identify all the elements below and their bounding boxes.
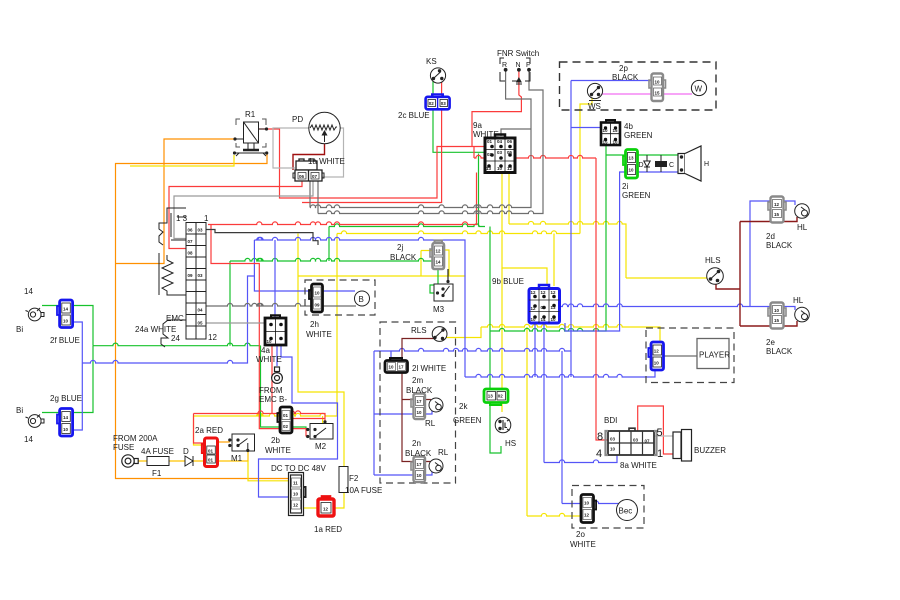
- svg-text:10: 10: [610, 447, 616, 452]
- svg-text:GREEN: GREEN: [622, 191, 651, 200]
- svg-text:2f BLUE: 2f BLUE: [50, 336, 80, 345]
- wire red R1 to 9a feeder: [259, 129, 486, 198]
- connector 2h WHITE + dashed box: [305, 280, 375, 315]
- svg-text:10: 10: [603, 128, 609, 133]
- svg-text:D: D: [183, 447, 189, 456]
- wire gray EMC 07 to 1a 07: [174, 181, 313, 239]
- svg-text:11: 11: [293, 481, 298, 486]
- motor W: [691, 80, 706, 95]
- wire blue riser to 2d: [750, 201, 795, 307]
- svg-text:4b: 4b: [624, 122, 633, 131]
- wire yellow 2a to M1 riser: [217, 452, 248, 462]
- wire gray 9a top tab riser: [501, 129, 531, 136]
- svg-text:WHITE: WHITE: [570, 540, 596, 549]
- dashed box 2o WHITE: [572, 486, 644, 529]
- wire yellow WS net: WS down, long run left, down to M2 area, to 2a: [580, 98, 592, 234]
- connector 9a WHITE: [485, 135, 515, 173]
- svg-text:1 3: 1 3: [176, 214, 188, 223]
- FNR switch pins and brackets: [500, 58, 531, 84]
- wire red 2b to M2: [292, 418, 325, 420]
- wire blue 2l row: [374, 348, 571, 351]
- svg-text:04: 04: [541, 305, 547, 310]
- wire magenta 2p WS to W: [602, 93, 692, 95]
- svg-text:04: 04: [497, 139, 503, 144]
- svg-text:Bi: Bi: [16, 406, 23, 415]
- svg-text:RL: RL: [438, 448, 449, 457]
- connector 2m BLACK: [411, 394, 425, 420]
- svg-text:HLS: HLS: [705, 256, 721, 265]
- svg-text:2b: 2b: [271, 436, 280, 445]
- svg-text:9b BLUE: 9b BLUE: [492, 277, 524, 286]
- svg-text:2m: 2m: [412, 376, 423, 385]
- wire blue RL2 bottom: [374, 472, 432, 475]
- connector 2o: [581, 495, 596, 523]
- wire green 2i to horn: [638, 154, 681, 156]
- wire darkred RLS internal trunk: [402, 339, 434, 462]
- svg-text:12: 12: [436, 249, 442, 254]
- svg-text:GREEN: GREEN: [624, 131, 653, 140]
- relay R1: [233, 119, 268, 156]
- svg-text:02: 02: [283, 424, 289, 429]
- svg-text:2i: 2i: [622, 182, 628, 191]
- svg-text:07: 07: [645, 439, 651, 444]
- svg-text:12: 12: [507, 166, 513, 171]
- svg-text:12: 12: [531, 306, 537, 311]
- wire gray BDI to buzzer: [648, 435, 673, 437]
- wire gray EMC 05 to 4a: [206, 318, 271, 323]
- svg-text:08: 08: [188, 251, 194, 256]
- svg-text:BDI: BDI: [604, 416, 617, 425]
- wire red KS down and left: [302, 82, 442, 203]
- svg-text:03: 03: [610, 437, 616, 442]
- svg-text:14: 14: [541, 317, 547, 322]
- svg-text:W: W: [695, 85, 703, 94]
- wire yellow horizontal under 2j: [298, 275, 466, 277]
- svg-text:10: 10: [551, 317, 557, 322]
- svg-text:B: B: [359, 295, 364, 304]
- svg-text:04: 04: [198, 308, 204, 313]
- wire blue 4a to ring terminal: [276, 345, 278, 366]
- svg-text:12: 12: [531, 290, 537, 295]
- svg-text:10: 10: [417, 410, 423, 415]
- wire red 4a down to M2 top pin: [271, 345, 273, 414]
- wire gray EMC 03 to 9b: [206, 230, 318, 246]
- svg-text:13: 13: [551, 305, 557, 310]
- svg-text:09: 09: [188, 273, 194, 278]
- wire gray PD right side to 1a: [322, 128, 344, 177]
- wire red BDI loop to buzzer: [638, 406, 673, 454]
- svg-text:EMC: EMC: [166, 314, 184, 323]
- svg-text:R: R: [502, 62, 507, 69]
- svg-text:BLACK: BLACK: [766, 347, 793, 356]
- wire blue riser drop to 2o and Bec: [561, 351, 563, 504]
- svg-text:13: 13: [486, 166, 492, 171]
- wire green 4b to 2i: [606, 154, 626, 156]
- wire blue into 4b: [571, 127, 601, 129]
- connector 2i GREEN: [623, 150, 638, 179]
- svg-text:2d: 2d: [766, 232, 775, 241]
- fuse 2e: [768, 303, 786, 329]
- svg-text:09: 09: [315, 303, 321, 308]
- wire green branch up to 9a feeder: [328, 227, 330, 262]
- svg-text:15: 15: [613, 128, 619, 133]
- svg-text:10: 10: [267, 339, 273, 344]
- svg-text:9a: 9a: [473, 121, 482, 130]
- dashed box PLAYER: [646, 328, 734, 383]
- connector 4a WHITE: [265, 315, 286, 345]
- wire yellow 9a drop through 2k: [501, 268, 503, 412]
- wire yellow R1 mount stub: [130, 155, 234, 166]
- svg-text:1a WHITE: 1a WHITE: [308, 157, 345, 166]
- wire green Bi1 to 2f: [42, 305, 60, 307]
- wire red EMC down to M2 lower pin: [211, 225, 306, 437]
- wire yellow branch into 9b top: [553, 234, 555, 287]
- svg-text:EMC B-: EMC B-: [259, 395, 287, 404]
- wire gray 1a to FNR F: [317, 181, 319, 214]
- svg-text:FROM: FROM: [259, 386, 283, 395]
- EMC connector strip: [186, 223, 206, 340]
- svg-text:2c BLUE: 2c BLUE: [398, 111, 430, 120]
- svg-text:F: F: [526, 62, 530, 69]
- wire main feed ring to F1 to D to 2a: [138, 460, 205, 462]
- wire red row to M2 top pin: [194, 411, 326, 422]
- wire gray EMC 04 to B circle: [206, 303, 356, 306]
- svg-text:WHITE: WHITE: [256, 355, 282, 364]
- svg-text:KS: KS: [426, 57, 437, 66]
- key switch KS: [430, 68, 445, 83]
- svg-text:10: 10: [613, 140, 619, 145]
- svg-text:03: 03: [198, 228, 204, 233]
- svg-text:D: D: [639, 162, 644, 169]
- wire blue 9b drop to BDI row: [543, 323, 545, 463]
- svg-text:PLAYER: PLAYER: [699, 351, 730, 360]
- wire blue 9b to headlights feeder: [559, 304, 795, 310]
- wire yellow 9a pin to 9b top: [502, 173, 547, 287]
- switch M2: [306, 420, 333, 439]
- svg-text:10: 10: [63, 319, 69, 324]
- svg-text:DC TO DC 48V: DC TO DC 48V: [271, 464, 326, 473]
- wire red EMC 08 loop to 1a connector: [169, 181, 302, 249]
- wire blue 2f trunk: [72, 322, 82, 430]
- svg-text:17: 17: [417, 462, 423, 467]
- svg-text:4: 4: [596, 448, 602, 460]
- svg-text:5: 5: [657, 427, 663, 439]
- fuse F1 4A: [147, 457, 169, 466]
- wire blue 2l cell drop: [390, 351, 392, 361]
- EMC solenoid bracket: [159, 208, 186, 347]
- svg-text:M1: M1: [231, 454, 243, 463]
- wire red FNR N drop: [472, 70, 521, 147]
- wire black 2j to M3 pin: [447, 269, 449, 282]
- svg-text:10: 10: [584, 501, 590, 506]
- connector 1a WHITE: [293, 159, 324, 181]
- svg-text:PD: PD: [292, 115, 303, 124]
- svg-text:HS: HS: [505, 439, 516, 448]
- svg-text:01: 01: [208, 457, 214, 462]
- controller Bec: [617, 500, 638, 521]
- svg-text:10: 10: [531, 317, 537, 322]
- ring terminal FROM FUSE: [122, 455, 138, 467]
- box PLAYER: [697, 339, 729, 369]
- svg-text:GREEN: GREEN: [453, 416, 482, 425]
- svg-text:FROM 200A: FROM 200A: [113, 434, 158, 443]
- wire orange 2a to M1 pins: [217, 441, 230, 443]
- headlight HL top: [795, 204, 810, 219]
- dashed box RLS: [380, 322, 456, 483]
- wire yellow M1 to DC-DC pin 11: [248, 461, 290, 481]
- svg-text:4a: 4a: [261, 346, 270, 355]
- wire yellow 2h-side trunk down to F2 and 1a RED: [298, 234, 344, 468]
- battery indicator Bi top: [26, 308, 45, 321]
- svg-text:BLACK: BLACK: [390, 253, 417, 262]
- horn speaker H: [678, 146, 701, 181]
- headlight switch HLS: [707, 268, 724, 285]
- svg-text:02: 02: [487, 152, 493, 157]
- svg-text:8a WHITE: 8a WHITE: [620, 461, 657, 470]
- diode D (main feed): [185, 456, 193, 466]
- switch M3: [434, 280, 453, 301]
- wire green Bi2 to 2g: [42, 412, 60, 414]
- svg-text:03: 03: [441, 101, 447, 106]
- svg-text:2n: 2n: [412, 439, 421, 448]
- svg-text:WHITE: WHITE: [306, 330, 332, 339]
- wire blue RLS trunk: [373, 351, 375, 475]
- wire darkred PD wiper to 1a connector: [293, 131, 325, 170]
- connector 2b WHITE: [277, 407, 292, 433]
- connector 2n BLACK: [411, 457, 425, 483]
- wire yellow 2j right exit: [444, 250, 450, 276]
- svg-text:10: 10: [389, 365, 395, 370]
- svg-text:07: 07: [312, 174, 318, 179]
- wire green horizontal to EMC riser: [93, 343, 261, 346]
- wire blue 4a up to bundle and across to RLS riser: [274, 240, 276, 318]
- svg-text:06: 06: [299, 174, 305, 179]
- svg-text:10: 10: [315, 291, 321, 296]
- svg-text:10: 10: [63, 427, 69, 432]
- svg-text:Bec: Bec: [619, 507, 633, 516]
- wire red EMC pin1 to 9a bottom: [208, 173, 477, 225]
- connector 2l WHITE: [385, 358, 408, 373]
- svg-text:07: 07: [188, 239, 194, 244]
- svg-text:13: 13: [488, 394, 494, 399]
- svg-text:02: 02: [429, 101, 435, 106]
- svg-text:1: 1: [204, 214, 209, 223]
- wire green 2g to junction riser: [72, 346, 93, 413]
- svg-text:FNR Switch: FNR Switch: [497, 49, 539, 58]
- svg-text:2k: 2k: [459, 402, 468, 411]
- buzzer: [673, 430, 692, 462]
- svg-text:FUSE: FUSE: [113, 443, 134, 452]
- svg-text:13: 13: [629, 156, 635, 161]
- connector 2j: [430, 241, 444, 270]
- svg-text:2o: 2o: [576, 530, 585, 539]
- wire yellow M2 drop: [322, 416, 324, 433]
- wire blue 4a down to DC-DC pin 10: [259, 345, 338, 497]
- connector 9b BLUE: [529, 285, 560, 323]
- wire blue player bottom row: [465, 370, 655, 377]
- ring terminal FROM EMC B-: [272, 367, 283, 383]
- svg-text:14: 14: [24, 435, 33, 444]
- svg-text:14: 14: [63, 307, 69, 312]
- svg-text:10: 10: [629, 168, 635, 173]
- wire green to M2 branch: [261, 346, 307, 430]
- svg-text:10: 10: [655, 80, 661, 85]
- connector 2g BLUE: [57, 409, 73, 437]
- svg-text:Bi: Bi: [16, 325, 23, 334]
- svg-text:2a RED: 2a RED: [195, 426, 223, 435]
- fuse 2d: [768, 197, 786, 223]
- horn switch HS: [495, 417, 511, 433]
- wire gray PD left side to 1a: [273, 128, 309, 168]
- svg-text:2h: 2h: [310, 320, 319, 329]
- svg-text:05: 05: [507, 150, 513, 155]
- svg-text:12: 12: [774, 202, 780, 207]
- fuse 2p 10/15: [649, 74, 666, 102]
- svg-text:15: 15: [774, 318, 780, 323]
- svg-text:BUZZER: BUZZER: [694, 446, 726, 455]
- svg-text:WHITE: WHITE: [473, 130, 499, 139]
- svg-text:H: H: [704, 161, 709, 168]
- svg-text:N: N: [516, 62, 521, 69]
- svg-text:12: 12: [584, 513, 590, 518]
- svg-text:14: 14: [24, 287, 33, 296]
- svg-text:12: 12: [654, 349, 660, 354]
- wire blue RL1 bottom: [374, 411, 432, 414]
- wire green KS down and into 9a: [433, 80, 485, 152]
- svg-text:BLACK: BLACK: [612, 73, 639, 82]
- svg-text:01: 01: [487, 139, 493, 144]
- rear light switch RLS: [432, 327, 447, 342]
- svg-text:15: 15: [603, 140, 609, 145]
- svg-text:15: 15: [774, 212, 780, 217]
- svg-text:10: 10: [293, 492, 299, 497]
- wire blue 2g branch across: [82, 276, 254, 363]
- capacitor C (horn): [655, 155, 667, 172]
- dashed box 2p BLACK: [560, 62, 717, 110]
- svg-text:F1: F1: [152, 469, 162, 478]
- wire red 9a middle row to BDI trunk: [473, 147, 475, 159]
- diode D (horn): [644, 155, 650, 172]
- wire gray 1a to FNR R: [309, 181, 311, 208]
- potentiometer PD: [309, 112, 340, 143]
- wire green 2j to M3: [430, 269, 438, 293]
- svg-text:M3: M3: [433, 305, 445, 314]
- svg-text:24a WHITE: 24a WHITE: [135, 325, 176, 334]
- wire blue riser to B circle: [254, 240, 355, 291]
- svg-text:BLACK: BLACK: [766, 241, 793, 250]
- svg-text:2g BLUE: 2g BLUE: [50, 394, 82, 403]
- rear light RL top: [429, 398, 443, 412]
- connector 2f BLUE: [57, 300, 73, 328]
- svg-text:10: 10: [497, 166, 503, 171]
- svg-text:12: 12: [293, 503, 299, 508]
- connector 1a RED: [318, 496, 334, 516]
- svg-text:14: 14: [63, 415, 69, 420]
- wire yellow RLS to PLAYER and 2o: [447, 327, 482, 338]
- wire yellow 9a pin to HLS: [508, 173, 510, 225]
- svg-text:06: 06: [188, 228, 194, 233]
- svg-text:WHITE: WHITE: [265, 446, 291, 455]
- headlight HL bottom: [795, 307, 810, 322]
- svg-text:M2: M2: [315, 442, 327, 451]
- wire darkred HLS trunk to headlight lows: [716, 217, 797, 326]
- svg-text:R1: R1: [245, 110, 256, 119]
- svg-text:14: 14: [436, 260, 442, 265]
- svg-text:2l WHITE: 2l WHITE: [412, 364, 446, 373]
- svg-text:2e: 2e: [766, 338, 775, 347]
- svg-text:24: 24: [171, 334, 180, 343]
- svg-text:1a RED: 1a RED: [314, 525, 342, 534]
- wire blue 9b pin drop to player row: [534, 323, 536, 377]
- svg-text:06: 06: [507, 139, 513, 144]
- svg-text:BLACK: BLACK: [406, 386, 433, 395]
- wire gray PLAYER link: [664, 355, 698, 357]
- connector DC TO DC: [289, 473, 306, 516]
- svg-text:03: 03: [198, 273, 204, 278]
- battery indicator Bi bottom: [26, 415, 45, 428]
- battery meter B: [355, 291, 370, 306]
- wiper switch WS: [587, 83, 602, 100]
- wire blue into 2p fuse: [571, 80, 652, 82]
- svg-text:C: C: [669, 162, 674, 169]
- svg-text:12: 12: [208, 333, 217, 342]
- svg-text:17: 17: [399, 365, 405, 370]
- wire orange branch to EMC spring and R1 left pin: [116, 139, 236, 264]
- svg-text:17: 17: [417, 399, 423, 404]
- switch M1: [228, 434, 254, 452]
- connector BDI 8a: [606, 428, 657, 455]
- svg-text:01: 01: [283, 413, 289, 418]
- connector 2a RED: [202, 438, 218, 467]
- connector 2c BLUE: [426, 94, 450, 109]
- svg-text:HL: HL: [793, 296, 804, 305]
- svg-text:BLACK: BLACK: [405, 449, 432, 458]
- wire green 2f to junction: [72, 306, 93, 346]
- wire red 2a feed drop: [194, 414, 206, 444]
- svg-text:10: 10: [417, 473, 423, 478]
- fuse F2: [339, 467, 348, 493]
- svg-text:03: 03: [497, 150, 503, 155]
- svg-text:10: 10: [774, 308, 780, 313]
- wire blue horn bottom row: [638, 171, 681, 173]
- connector player BLUE: [648, 342, 663, 370]
- svg-text:15: 15: [655, 91, 661, 96]
- svg-text:RLS: RLS: [411, 326, 427, 335]
- svg-text:8: 8: [597, 431, 603, 443]
- svg-text:12: 12: [541, 290, 547, 295]
- svg-text:HL: HL: [797, 223, 808, 232]
- svg-text:WS: WS: [588, 102, 601, 111]
- connector 4b GREEN: [601, 120, 620, 145]
- svg-text:10: 10: [654, 361, 660, 366]
- rear light RL bottom: [429, 459, 443, 473]
- svg-text:2j: 2j: [397, 243, 403, 252]
- svg-text:01: 01: [208, 448, 214, 453]
- connector 2k GREEN: [484, 389, 508, 405]
- wire green 9a side drop: [479, 154, 502, 454]
- svg-text:05: 05: [198, 321, 204, 326]
- wire blue 2i loop to 9b: [565, 172, 626, 331]
- wire green riser x230 to 2j run: [229, 261, 231, 346]
- svg-text:RL: RL: [425, 419, 436, 428]
- wire yellow 2j loop left leg: [421, 251, 433, 277]
- wire blue 2p long vertical: [570, 81, 572, 378]
- wire orange trunk: fuse feed from R1 mount down left side to DC-DC: [116, 153, 291, 479]
- svg-text:10A FUSE: 10A FUSE: [345, 486, 382, 495]
- svg-text:12: 12: [323, 507, 329, 512]
- svg-text:2p: 2p: [619, 64, 628, 73]
- svg-text:F2: F2: [349, 474, 359, 483]
